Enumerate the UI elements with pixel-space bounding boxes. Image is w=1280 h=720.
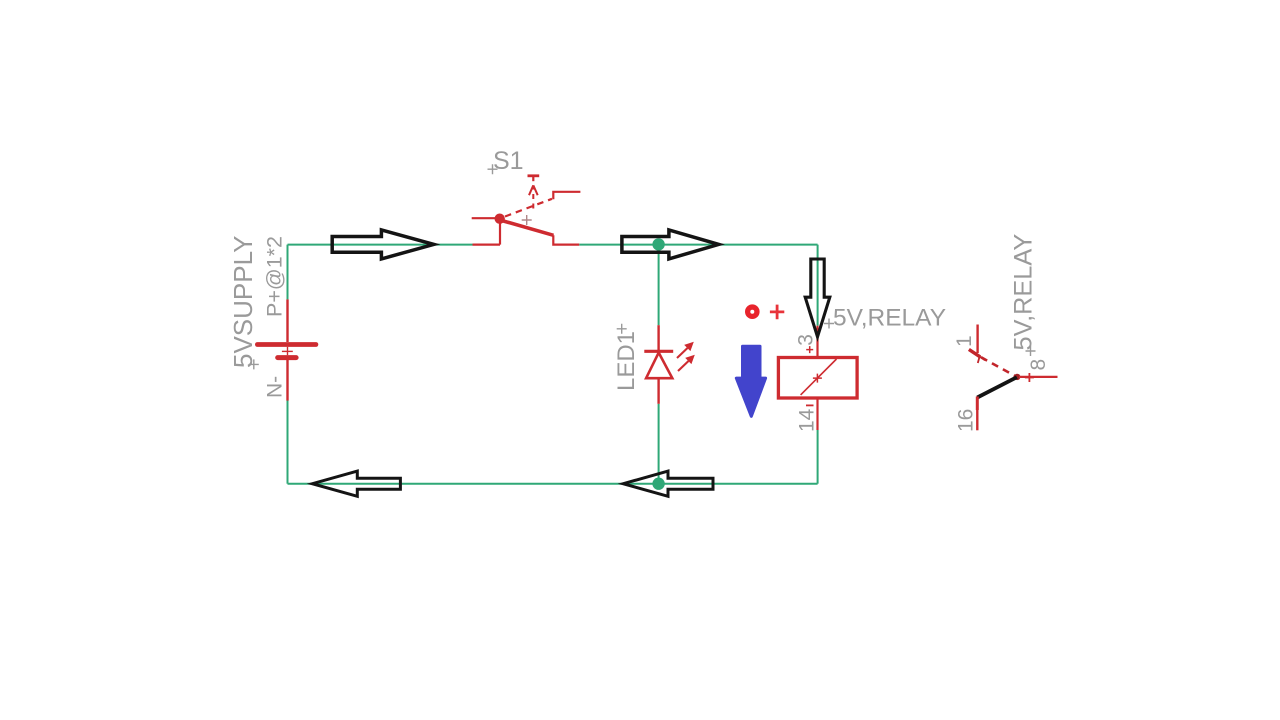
contact common dot [1014,374,1020,380]
wire LED branch lower [658,404,660,484]
svg-text:16: 16 [955,409,978,432]
cursor cross [770,305,784,320]
current flow arrow bottom-right (pointing left) [623,471,713,496]
label anchor cross S1 [488,164,498,174]
svg-text:P+@1*2: P+@1*2 [263,236,287,317]
LED LED1 [644,325,688,404]
svg-text:1: 1 [953,335,976,347]
svg-text:14: 14 [796,408,819,432]
switch pivot dot [495,214,505,224]
blue indicator arrow down [736,346,765,416]
pin 1 lead [976,325,978,354]
svg-text:S1: S1 [493,147,524,175]
wire bottom [288,483,818,485]
cursor donut [745,304,760,319]
wire top right segment [579,244,817,246]
contact blade (black) [977,377,1017,397]
switch S1 [472,176,581,245]
current flow arrow down (to relay) [805,259,830,337]
relay coil K1 [778,326,857,430]
current flow arrow top-right [622,230,719,259]
pin 16 lead [976,397,979,411]
svg-text:5V,RELAY: 5V,RELAY [1010,234,1038,351]
junction node bottom [652,478,664,490]
symbol origin cross S1 [522,215,532,225]
wire top left segment [288,244,473,246]
wire right vertical upper [817,245,819,326]
svg-text:LED1: LED1 [613,331,640,391]
LED light arrow heads [684,342,694,351]
wire left vertical lower [287,361,289,484]
current flow arrow bottom-left (pointing left) [312,471,400,496]
label anchor cross LED1 [617,324,627,334]
svg-text:5VSUPPLY: 5VSUPPLY [228,236,258,368]
label anchor cross 5VSUPPLY [249,359,259,369]
contact dashed throw to pin 1 [969,349,980,357]
label anchor cross 5V,RELAY [824,319,834,329]
junction node top [652,238,664,250]
svg-text:N-: N- [264,376,287,398]
label anchor cross 5V,RELAY right [1026,346,1036,356]
pin 8 cross [1025,373,1034,382]
current flow arrow top-left [332,230,434,259]
battery B1 5VSUPPLY [257,299,316,400]
svg-text:3: 3 [795,334,818,346]
wire LED branch upper [658,245,660,326]
contact actuator arrowhead [978,357,985,364]
wire right vertical lower [817,430,819,484]
wire left vertical upper [287,245,289,300]
svg-text:8: 8 [1027,359,1050,371]
svg-text:5V,RELAY: 5V,RELAY [833,305,946,332]
pin 8 lead [1019,376,1058,378]
